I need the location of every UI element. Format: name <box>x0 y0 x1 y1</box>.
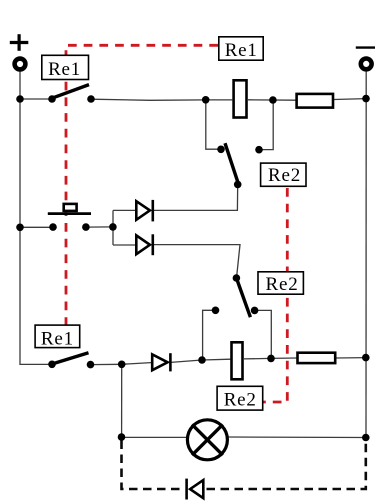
wire lamp row left <box>122 436 187 438</box>
dashed black return path with diode <box>122 441 366 490</box>
wire top left <box>20 98 52 100</box>
label box Re2 (second) <box>258 272 303 295</box>
wire S2 common to diode D1 <box>153 185 238 211</box>
wire S3 right contact down <box>255 310 272 358</box>
svg-text:Re1: Re1 <box>225 40 258 61</box>
wire left rail <box>20 71 52 365</box>
relay coil Re1 (top) <box>234 80 247 117</box>
svg-text:Re1: Re1 <box>41 329 74 350</box>
label box Re1 (upper left) <box>42 55 89 80</box>
diode D2 (lower) <box>136 234 153 255</box>
terminal plus sign <box>10 34 29 51</box>
wire node to D1 anode <box>113 209 136 211</box>
label box Re1 (bottom left) <box>35 325 80 349</box>
svg-text:Re2: Re2 <box>265 274 298 295</box>
wire coil to node <box>244 357 271 360</box>
wire switch S2 left branch <box>206 100 221 149</box>
diode D4 (in dashed return, pointing left) <box>187 479 204 500</box>
switch contact Re1 bottom (S4 blade) <box>52 353 89 364</box>
svg-text:Re2: Re2 <box>268 165 301 186</box>
svg-text:Re1: Re1 <box>48 59 81 80</box>
resistor R2 (bottom right) <box>298 353 336 363</box>
wire S3 left contact down <box>203 310 216 360</box>
label box Re1 (top) <box>219 37 263 61</box>
wire node to D3 anode <box>122 363 151 365</box>
wire coil to node <box>248 99 296 101</box>
terminal circle negative <box>361 59 372 70</box>
wire D3 cathode to coil node <box>171 360 202 362</box>
wire button to branch <box>86 226 113 228</box>
diode D3 (bottom row) <box>152 353 170 371</box>
wire switch S2 right branch <box>259 100 273 150</box>
lamp <box>187 420 227 460</box>
wire node to resistor R2 <box>271 357 296 359</box>
label box Re2 (bottom) <box>217 386 263 410</box>
wire right rail <box>365 71 367 438</box>
dashed red link Re1 (from top Re1 label to bottom Re1 contact) <box>66 45 218 326</box>
changeover switch S3 blade (Re2 contact lower) <box>236 278 250 317</box>
diode D1 (upper) <box>136 200 153 222</box>
resistor R1 (top right) <box>297 94 333 108</box>
wire lamp left drop <box>121 364 123 437</box>
wire branch vertical between diodes <box>112 210 114 245</box>
wire middle row left <box>20 226 53 228</box>
terminal minus sign <box>356 46 375 48</box>
svg-text:Re2: Re2 <box>224 390 257 411</box>
dashed red link Re2 (from Re2 label chain to bottom Re2 coil label) <box>264 188 288 402</box>
wire top middle <box>91 99 232 100</box>
wire bottom switch to node <box>91 363 122 365</box>
label box Re2 (first) <box>261 163 306 186</box>
wire coil node to coil <box>202 358 230 361</box>
wire node to D2 anode <box>113 244 136 246</box>
wire D2 cathode to S3 common <box>153 245 240 278</box>
wire resistor R2 to right rail <box>336 357 366 359</box>
changeover switch S2 blade (Re2 contact upper) <box>225 143 238 184</box>
relay coil Re2 (bottom) <box>232 342 243 379</box>
switch contact Re1 top (S1 blade) <box>53 85 89 98</box>
wire lamp row right <box>229 436 366 439</box>
terminal circle positive <box>15 59 26 70</box>
junction nodes <box>16 95 370 442</box>
wire resistor to right rail <box>334 98 366 101</box>
push button SB <box>48 204 91 214</box>
